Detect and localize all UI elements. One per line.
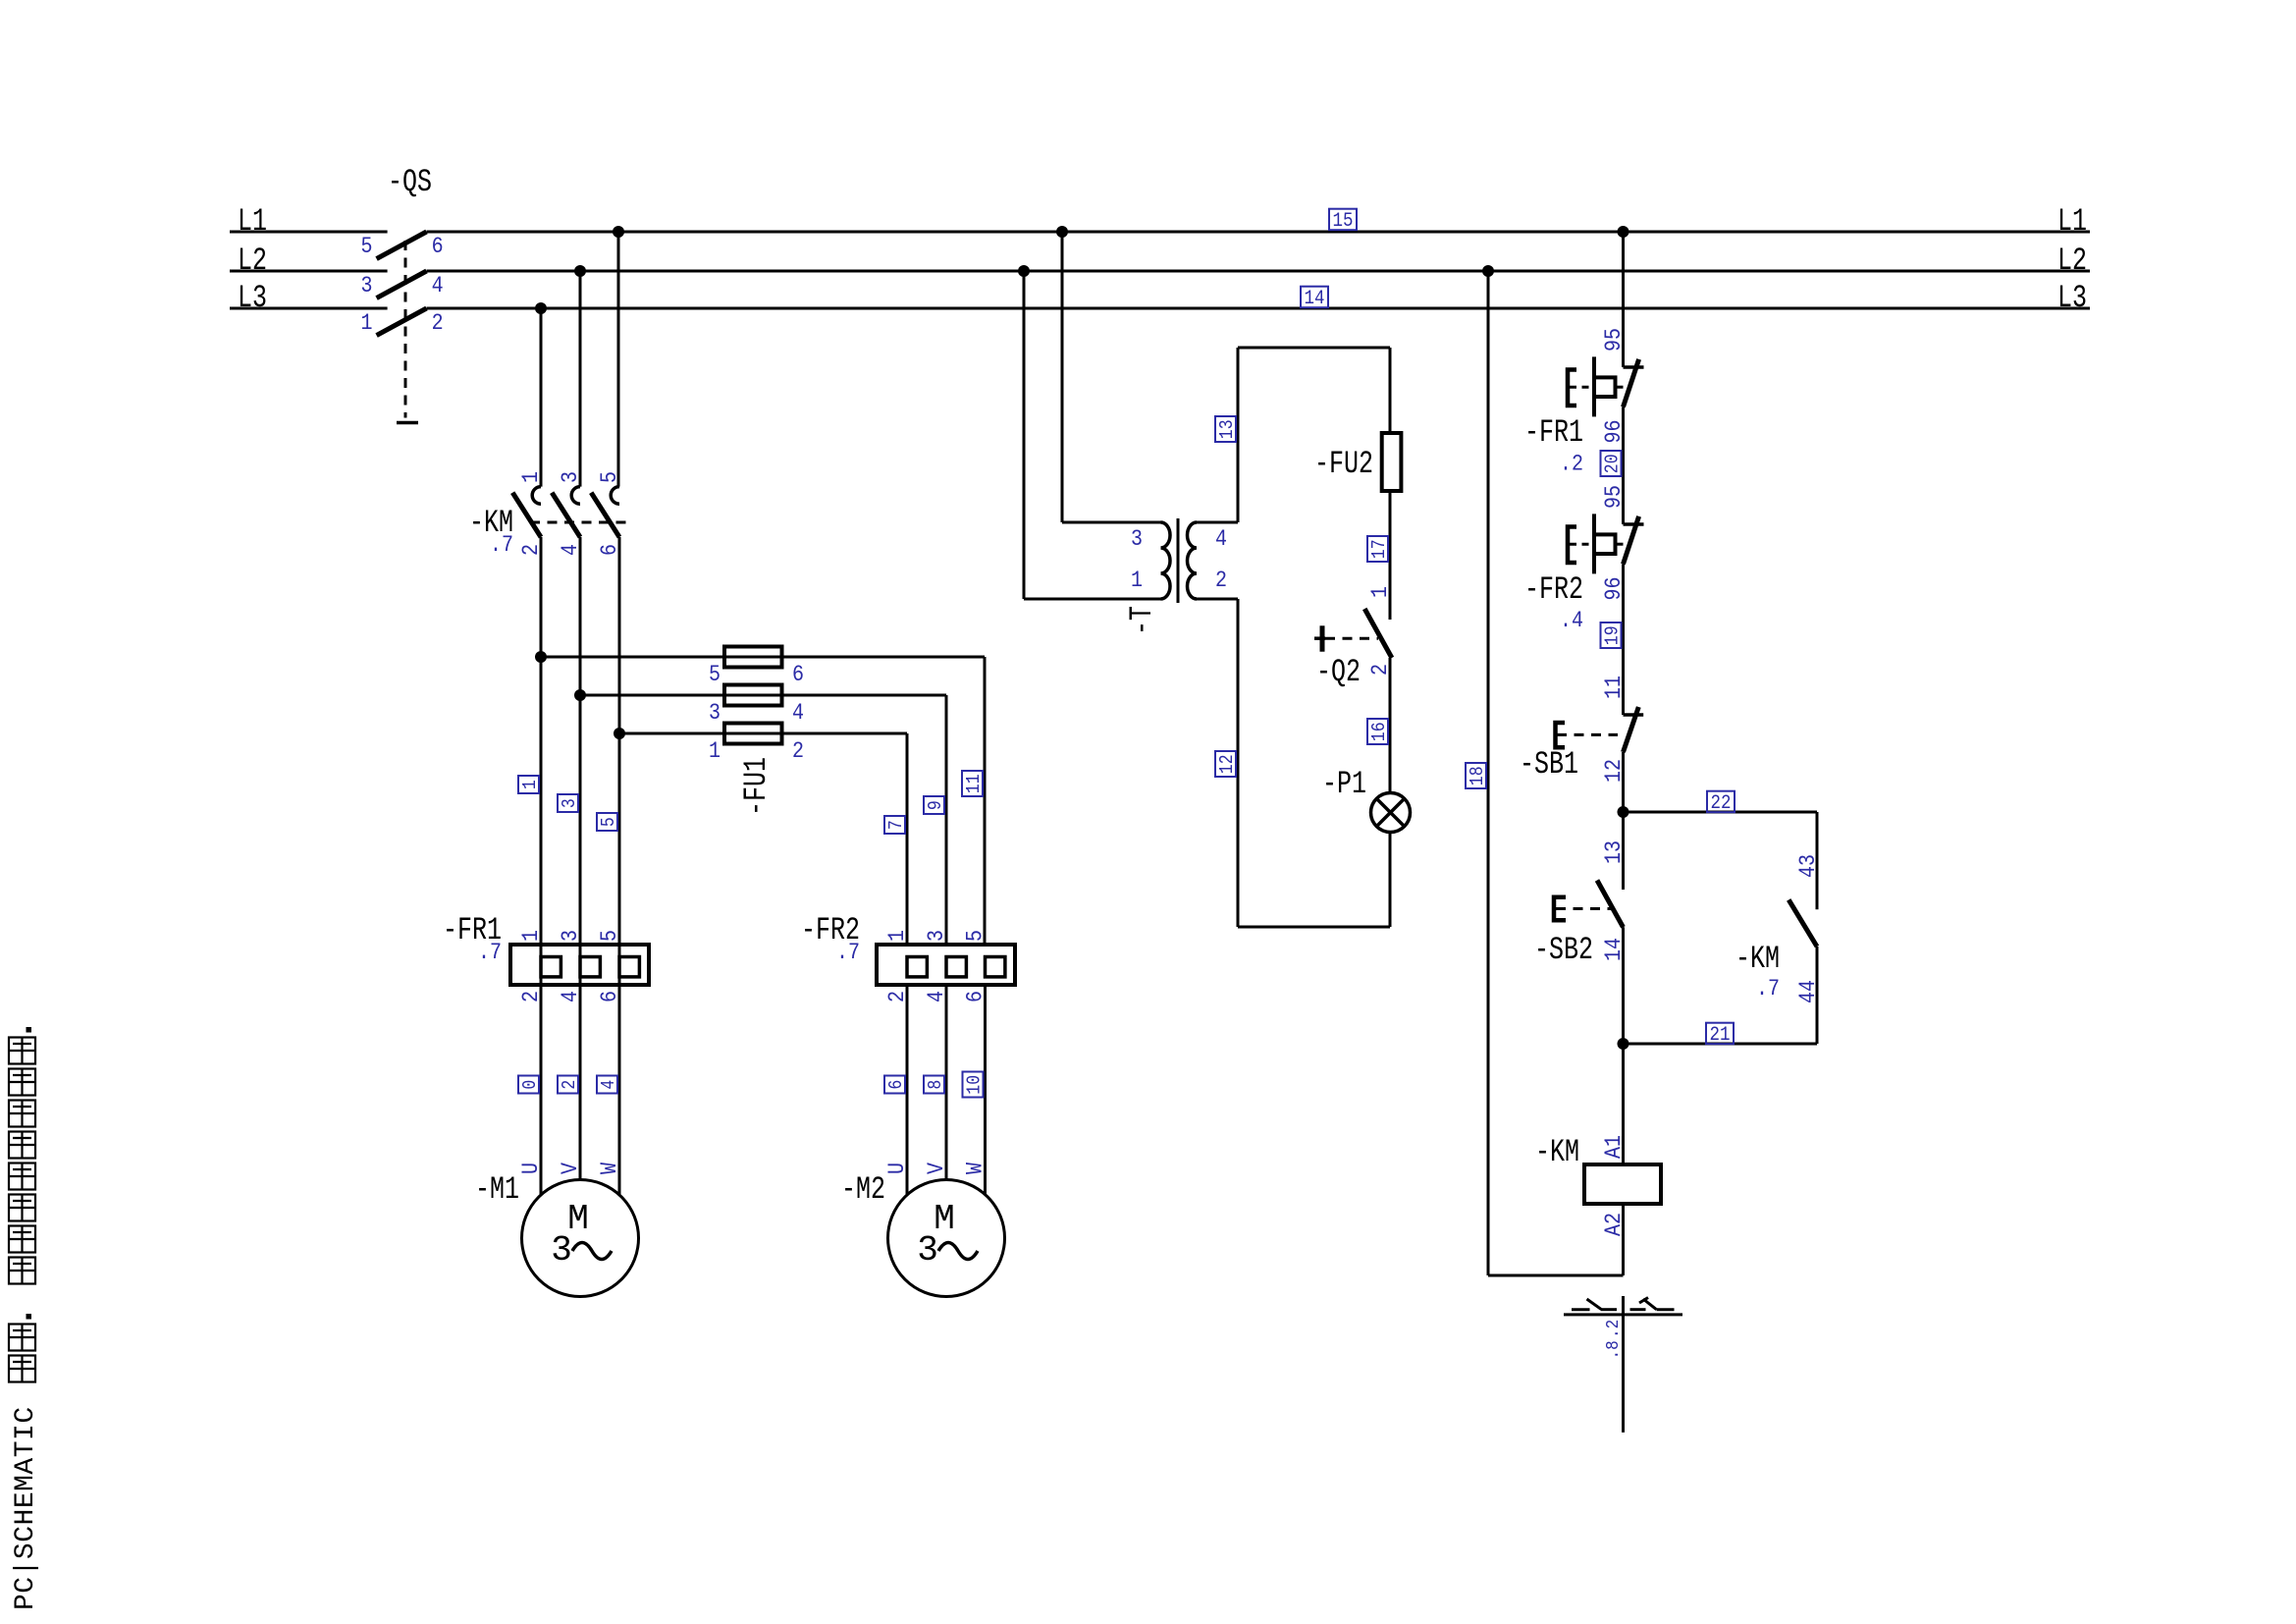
svg-text:-FR1: -FR1 — [1524, 414, 1583, 451]
wire FR2 aux to SB1 — [1622, 565, 1625, 716]
wire number box 1 — [518, 776, 539, 793]
svg-text:12: 12 — [1217, 754, 1238, 774]
wire KM aux branch down from wire 22 — [1816, 812, 1819, 909]
wire down to FU2 — [1389, 348, 1392, 433]
transformer T secondary winding — [1188, 522, 1198, 599]
svg-text:3: 3 — [559, 471, 584, 483]
wire L1 down to transformer pin 3 — [1061, 232, 1064, 522]
svg-text:V: V — [559, 1163, 584, 1174]
svg-text:43: 43 — [1796, 854, 1822, 878]
svg-text:1: 1 — [1131, 568, 1143, 594]
contactor KM main contact 3-4 blade — [552, 493, 580, 537]
wire fuse row 3-4 — [580, 694, 946, 697]
motor M2 sine symbol — [938, 1243, 978, 1260]
svg-text:A1: A1 — [1602, 1135, 1628, 1159]
svg-text:.7: .7 — [478, 941, 502, 966]
wire from L3 down to KM pin 1 — [540, 308, 543, 487]
motor M1 body circle — [522, 1180, 639, 1297]
svg-text:L3: L3 — [238, 280, 267, 316]
thermal contact FR1 actuator flag — [1594, 377, 1616, 397]
wire secondary bottom to loop — [1197, 598, 1238, 601]
svg-text:U: U — [885, 1163, 911, 1174]
wire number box 11 — [962, 771, 983, 796]
thermal contact FR2 link to blade — [1616, 543, 1624, 546]
sheet reference symbol bar — [1564, 1313, 1682, 1316]
contactor KM main contact 5-6 blade — [591, 493, 619, 537]
sheet reference contact left blade — [1587, 1299, 1602, 1310]
svg-text:4: 4 — [432, 274, 444, 299]
wire number box 18 — [1466, 763, 1486, 788]
fuse FU1 element 5-6 — [724, 647, 782, 668]
switch QS mechanical link (dashed) — [404, 241, 407, 418]
svg-text:1: 1 — [885, 930, 911, 942]
svg-text:2: 2 — [1215, 568, 1227, 594]
svg-text:W: W — [963, 1163, 988, 1174]
wire 16 Q2 to lamp P1 — [1389, 658, 1392, 793]
wire coil KM to bottom rail — [1622, 1204, 1625, 1275]
contactor KM main contact 5-6 fixed terminal arc — [611, 487, 619, 505]
wire loop bottom — [1238, 926, 1390, 929]
pushbutton SB2 link dashed — [1556, 907, 1611, 910]
svg-text:PC|SCHEMATIC: PC|SCHEMATIC — [11, 1406, 41, 1610]
pushbutton SB2 actuator bracket — [1554, 897, 1566, 921]
node junction L1 / control ladder — [1618, 226, 1629, 238]
svg-text:5: 5 — [598, 471, 623, 483]
pushbutton SB1 actuator bracket — [1556, 723, 1566, 747]
thermal contact FR2 link dashed — [1570, 543, 1593, 546]
svg-text:13: 13 — [1602, 840, 1628, 864]
svg-text:.8: .8 — [1604, 1340, 1624, 1359]
svg-text:13: 13 — [1217, 419, 1238, 439]
svg-text:3: 3 — [360, 274, 372, 299]
wire L3 bus right segment (wire 14) — [427, 307, 2091, 310]
svg-text:2: 2 — [792, 739, 804, 765]
svg-text:V: V — [925, 1163, 950, 1174]
wire fuse row 5-6 — [541, 656, 985, 659]
wire 12 loop left fall — [1237, 599, 1240, 927]
wire to transformer primary top — [1062, 521, 1161, 524]
svg-text:1: 1 — [360, 311, 372, 337]
svg-text:3: 3 — [709, 701, 721, 727]
svg-text:11: 11 — [964, 774, 985, 793]
svg-text:-SB2: -SB2 — [1534, 932, 1593, 968]
motor M1 sine symbol — [572, 1243, 612, 1260]
wire number box 13 — [1215, 416, 1236, 442]
svg-text:1: 1 — [519, 471, 545, 483]
svg-text:L3: L3 — [2057, 280, 2087, 316]
wire number box 8 — [924, 1076, 944, 1094]
wire 13 control loop left rise — [1237, 348, 1240, 522]
svg-text:.7: .7 — [836, 941, 860, 966]
wire from fuse 3-4 down to FR2 pin 3 — [945, 695, 948, 945]
svg-text:W: W — [598, 1163, 623, 1174]
wire L1 bus left segment — [230, 231, 388, 234]
wire 21 horizontal — [1624, 1043, 1818, 1046]
wire control loop top — [1238, 347, 1390, 350]
svg-text:17: 17 — [1369, 539, 1390, 559]
svg-text:L1: L1 — [2057, 203, 2087, 240]
svg-text:-FR2: -FR2 — [1524, 571, 1583, 608]
sheet reference contact right tick 1 — [1630, 1308, 1646, 1311]
thermal contact FR2 actuator pole — [1592, 514, 1596, 573]
svg-text:6: 6 — [792, 663, 804, 688]
thermal overload FR2 heater element at x=964 — [946, 957, 966, 977]
svg-text:-M1: -M1 — [475, 1171, 519, 1208]
svg-text:.2: .2 — [1560, 452, 1583, 477]
wire number box 10 — [963, 1072, 984, 1098]
svg-text:6: 6 — [432, 235, 444, 260]
contactor coil KM body — [1584, 1164, 1661, 1204]
svg-text:.7: .7 — [490, 533, 513, 559]
svg-text:14: 14 — [1305, 287, 1325, 309]
sheet reference symbol vertical wire — [1622, 1296, 1625, 1433]
contactor aux contact KM 43-44 blade — [1789, 899, 1817, 947]
thermal contact FR1 trip bracket — [1568, 370, 1576, 406]
thermal contact FR2 actuator flag — [1594, 534, 1616, 554]
thermal overload FR2 heater element at x=1003.5 — [986, 957, 1005, 977]
wire L1 bus right segment (wire 15) — [427, 231, 2091, 234]
wire number box 4 — [597, 1076, 617, 1094]
svg-text:.4: .4 — [1560, 609, 1583, 634]
svg-text:0: 0 — [520, 1080, 541, 1090]
svg-text:-M2: -M2 — [841, 1171, 885, 1208]
sheet reference contact left tick 1 — [1572, 1308, 1590, 1311]
wire from L1 down to KM pin 5 — [617, 232, 620, 487]
node junction L2 / transformer primary — [1018, 265, 1030, 277]
svg-text:.2: .2 — [1604, 1320, 1624, 1338]
svg-text:1: 1 — [520, 780, 541, 789]
wire L1 down to FR1 aux contact — [1622, 232, 1625, 367]
svg-text:6: 6 — [886, 1080, 907, 1090]
fuse FU2 body — [1382, 433, 1402, 491]
wire KM aux to wire 21 — [1816, 947, 1819, 1044]
svg-text:4: 4 — [792, 701, 804, 727]
svg-text:6: 6 — [598, 991, 623, 1002]
svg-text:5: 5 — [709, 663, 721, 688]
thermal overload FR1 heater element at x=631 — [619, 957, 639, 977]
contactor KM main contact 3-4 fixed terminal arc — [571, 487, 580, 505]
thermal overload relay FR1 body — [510, 945, 649, 985]
thermal contact FR1 link to blade — [1616, 386, 1624, 389]
sheet reference contact right tick 2 — [1657, 1308, 1675, 1311]
node junction L1 / phase wire — [613, 226, 624, 238]
wire number box 20 — [1601, 451, 1622, 476]
svg-text:3: 3 — [560, 798, 580, 808]
switch QS pole 1-2 blade — [377, 308, 427, 336]
switch Q2 actuator link (dashed) — [1325, 637, 1378, 640]
svg-text:5: 5 — [360, 235, 372, 260]
wire 17 FU2 to Q2 — [1389, 491, 1392, 620]
thermal overload FR1 heater element at x=591 — [580, 957, 600, 977]
pushbutton SB1 blade — [1624, 707, 1639, 752]
svg-text:.7: .7 — [1756, 977, 1780, 1002]
wire number box 21 — [1706, 1023, 1734, 1045]
svg-text:-KM: -KM — [1535, 1134, 1579, 1170]
thermal contact FR1 top terminal tick — [1624, 365, 1644, 369]
svg-text:18: 18 — [1468, 766, 1488, 785]
svg-text:5: 5 — [963, 930, 988, 942]
wire number box 6 — [884, 1076, 905, 1094]
switch Q2 blade — [1364, 609, 1392, 658]
wire 18 from L2 down to bottom rail — [1487, 271, 1490, 1275]
node junction L1 / transformer primary — [1056, 226, 1068, 238]
switch QS pole 5-6 blade — [377, 232, 427, 259]
svg-text:-P1: -P1 — [1322, 766, 1366, 802]
wire number box 19 — [1601, 623, 1622, 648]
svg-text:1: 1 — [519, 930, 545, 942]
thermal overload FR1 heater element at x=551 — [541, 957, 561, 977]
svg-text:-Q2: -Q2 — [1316, 654, 1361, 690]
svg-text:7: 7 — [886, 820, 907, 830]
wire SB1 to SB2 through junction — [1622, 752, 1625, 890]
node junction fuse tap 3 — [614, 728, 625, 739]
wire bottom rail to wire 18 — [1488, 1274, 1624, 1277]
svg-text:3: 3 — [551, 1230, 572, 1271]
svg-text:-SB1: -SB1 — [1520, 746, 1578, 783]
sheet reference contact right barb — [1639, 1298, 1648, 1304]
watermark CJK glyphs (drawn) — [9, 1356, 35, 1382]
node junction L2 / wire 18 — [1482, 265, 1494, 277]
thermal contact FR1 blade — [1624, 359, 1639, 407]
switch QS pole 3-4 blade — [377, 271, 427, 298]
thermal contact FR1 actuator pole — [1592, 356, 1596, 416]
switch Q2 actuator tick — [1314, 636, 1325, 640]
motor M2 body circle — [888, 1180, 1005, 1297]
node junction fuse tap 1 — [535, 651, 547, 663]
wire SB2 to coil KM — [1622, 927, 1625, 1164]
svg-text:95: 95 — [1602, 485, 1628, 509]
svg-text:22: 22 — [1711, 791, 1732, 814]
svg-text:16: 16 — [1369, 722, 1390, 741]
svg-text:10: 10 — [965, 1075, 986, 1095]
wire number box 15 on L1 — [1329, 209, 1357, 231]
svg-text:20: 20 — [1603, 454, 1624, 473]
svg-text:3: 3 — [925, 930, 950, 942]
pushbutton SB1 link dashed — [1557, 733, 1618, 736]
fuse FU1 element 1-2 — [724, 724, 782, 744]
wire from fuse 5-6 down to FR2 pin 5 — [984, 657, 987, 945]
contactor KM mechanical link (dashed) — [530, 521, 630, 524]
svg-text:-KM: -KM — [1735, 941, 1780, 977]
wire number box 22 — [1707, 791, 1735, 813]
sheet reference contact right blade — [1643, 1299, 1657, 1310]
svg-text:-FU2: -FU2 — [1314, 446, 1373, 482]
svg-text:4: 4 — [559, 991, 584, 1002]
switch QS handle — [397, 421, 418, 425]
wire number box 0 — [518, 1076, 539, 1094]
svg-text:1: 1 — [709, 739, 721, 765]
svg-text:5: 5 — [598, 930, 623, 942]
wire number box 5 — [597, 813, 617, 831]
wire phase C below KM — [618, 537, 621, 1195]
thermal contact FR2 blade — [1624, 516, 1639, 565]
lamp P1 body — [1371, 793, 1411, 833]
svg-text:U: U — [519, 1163, 545, 1174]
svg-text:3: 3 — [1131, 527, 1143, 553]
svg-text:3: 3 — [559, 930, 584, 942]
node junction wire 21 — [1618, 1038, 1629, 1050]
wire number box 3 — [558, 794, 578, 812]
thermal overload relay FR2 body — [877, 945, 1015, 985]
svg-text:L1: L1 — [238, 203, 267, 240]
fuse FU1 element 3-4 — [724, 685, 782, 706]
wire fuse row 1-2 — [619, 732, 907, 735]
transformer T core — [1177, 518, 1180, 603]
wire secondary top to control loop — [1197, 521, 1238, 524]
svg-text:8: 8 — [926, 1080, 946, 1090]
svg-text:21: 21 — [1710, 1023, 1731, 1046]
thermal contact FR1 link dashed — [1570, 386, 1593, 389]
svg-text:4: 4 — [599, 1080, 619, 1090]
node junction fuse tap 2 — [574, 689, 586, 701]
thermal contact FR2 trip bracket — [1568, 527, 1576, 564]
wire number box 17 — [1367, 536, 1388, 562]
wire phase A below KM (to FR1 and fuse row) — [540, 537, 543, 1195]
svg-text:9: 9 — [926, 800, 946, 810]
wire number box 14 on L3 — [1301, 287, 1328, 308]
wire L2 down to transformer pin 1 — [1023, 271, 1026, 599]
svg-text:11: 11 — [1602, 676, 1628, 699]
wire FR2 pin2 to motor M2 U — [906, 985, 909, 1195]
wire number box 9 — [924, 796, 944, 814]
pushbutton SB1 top terminal tick — [1624, 713, 1644, 717]
wire from fuse 1-2 down to FR2 pin 1 — [906, 733, 909, 945]
wire number box 7 — [884, 816, 905, 834]
svg-text:L2: L2 — [238, 243, 267, 279]
wire phase B below KM — [579, 537, 582, 1180]
svg-text:95: 95 — [1602, 328, 1628, 352]
contactor KM main contact 1-2 blade — [512, 493, 541, 537]
wire number box 16 — [1367, 719, 1388, 744]
node junction L3 / phase wire — [535, 302, 547, 314]
wire lamp to loop bottom — [1389, 833, 1392, 928]
svg-text:3: 3 — [917, 1230, 938, 1271]
wire FR1 aux to FR2 aux — [1622, 407, 1625, 525]
svg-text:-FU1: -FU1 — [738, 757, 774, 816]
svg-text:4: 4 — [1215, 527, 1227, 553]
svg-text:19: 19 — [1603, 625, 1624, 645]
thermal overload FR2 heater element at x=924 — [907, 957, 927, 977]
sheet reference contact left tick 2 — [1601, 1308, 1617, 1311]
transformer T primary winding — [1161, 522, 1171, 599]
svg-text:2: 2 — [432, 311, 444, 337]
wire FR2 pin6 to motor M2 W — [984, 985, 987, 1195]
svg-text:2: 2 — [519, 991, 545, 1002]
svg-text:-QS: -QS — [388, 164, 432, 200]
wire number box 12 — [1215, 751, 1236, 777]
contactor KM main contact 1-2 fixed terminal arc — [532, 487, 541, 505]
node junction L2 / phase wire — [574, 265, 586, 277]
wire FR2 pin4 to motor M2 V — [945, 985, 948, 1180]
thermal contact FR2 top terminal tick — [1624, 522, 1644, 526]
wire to transformer primary bottom — [1024, 598, 1161, 601]
svg-text:-T: -T — [1124, 606, 1160, 635]
svg-text:15: 15 — [1333, 209, 1354, 232]
pushbutton SB2 blade — [1597, 881, 1624, 928]
switch Q2 actuator bar — [1320, 625, 1325, 651]
wire number box 2 — [558, 1076, 578, 1094]
svg-text:L2: L2 — [2057, 243, 2087, 279]
wire L3 bus left segment — [230, 307, 388, 310]
wire 22 to KM aux — [1624, 811, 1818, 814]
svg-text:1: 1 — [1368, 586, 1394, 598]
svg-text:5: 5 — [599, 817, 619, 827]
wire L2 bus left segment — [230, 270, 388, 273]
svg-text:2: 2 — [560, 1080, 580, 1090]
node junction wire 22 tap — [1618, 806, 1629, 818]
wire from L2 down to KM pin 3 — [579, 271, 582, 487]
wire L2 bus right segment — [427, 270, 2091, 273]
